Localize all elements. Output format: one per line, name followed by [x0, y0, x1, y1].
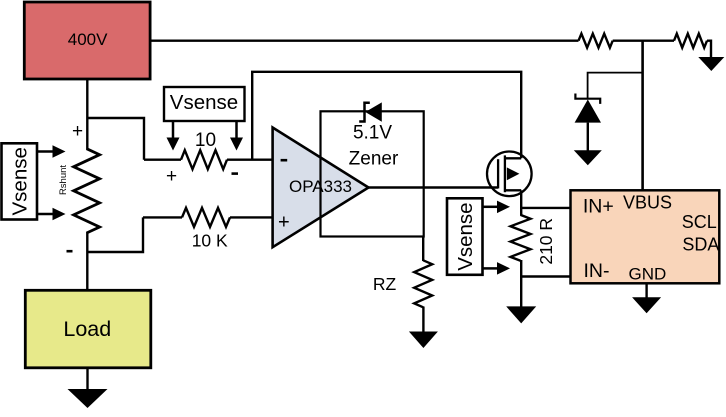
svg-text:+: +	[166, 166, 177, 187]
svg-text:5.1V: 5.1V	[353, 123, 392, 144]
svg-text:Zener: Zener	[349, 149, 399, 170]
svg-text:RZ: RZ	[373, 274, 397, 294]
svg-text:400V: 400V	[68, 30, 108, 49]
svg-text:Vsense: Vsense	[170, 91, 238, 114]
svg-text:210 R: 210 R	[536, 218, 556, 265]
svg-text:Vsense: Vsense	[454, 202, 477, 270]
svg-text:Rshunt: Rshunt	[58, 165, 69, 195]
svg-text:VBUS: VBUS	[623, 193, 672, 213]
svg-text:IN+: IN+	[583, 196, 614, 218]
svg-text:10 K: 10 K	[192, 231, 228, 251]
svg-text:10: 10	[195, 130, 216, 151]
svg-text:Load: Load	[63, 317, 111, 341]
svg-text:GND: GND	[629, 265, 667, 284]
svg-text:Vsense: Vsense	[8, 147, 31, 215]
svg-text:SDA: SDA	[682, 235, 719, 255]
svg-text:SCL: SCL	[682, 212, 717, 232]
svg-text:+: +	[72, 121, 83, 142]
svg-text:IN-: IN-	[584, 260, 610, 282]
svg-text:+: +	[278, 211, 290, 233]
